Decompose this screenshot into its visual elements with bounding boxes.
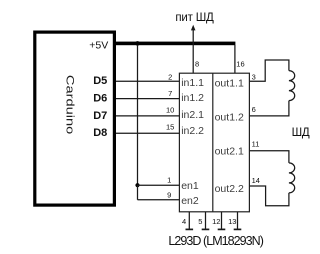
wire D8 to in2.2 [116,132,179,134]
svg-text:1: 1 [167,176,171,185]
svg-text:4: 4 [182,217,186,226]
svg-text:3: 3 [252,72,256,81]
svg-text:13: 13 [228,217,236,226]
svg-text:6: 6 [252,105,256,114]
svg-text:2: 2 [168,73,172,82]
svg-text:7: 7 [168,89,172,98]
wire pin12 ground stub [218,212,226,230]
svg-text:10: 10 [166,106,174,115]
wire L1 bottom to pin6 [249,101,289,116]
svg-text:out1.1: out1.1 [215,78,244,90]
wire pin3 stub to L1 top [249,60,289,81]
svg-text:out2.2: out2.2 [215,183,244,195]
wire pin13 ground stub [234,212,242,230]
svg-text:12: 12 [212,217,220,226]
arrow to пит ШД power feed [191,25,196,31]
Arduino U1 body [35,32,115,205]
svg-text:ШД: ШД [292,127,310,139]
svg-text:8: 8 [195,59,199,68]
wire pin11 stub to L2 top [249,151,289,163]
wire en2 horizontal [138,199,180,201]
svg-text:D7: D7 [93,110,107,122]
svg-text:пит ШД: пит ШД [175,12,214,24]
inductor L2 motor winding B [289,163,295,193]
svg-text:11: 11 [252,140,260,149]
svg-text:15: 15 [166,122,174,131]
svg-text:in1.1: in1.1 [181,77,204,89]
svg-text:out1.2: out1.2 [215,112,244,124]
wire D5 to in1.1 [116,80,179,82]
svg-text:D6: D6 [93,92,107,104]
svg-text:+5V: +5V [89,39,108,51]
svg-text:L293D (LM18293N): L293D (LM18293N) [168,234,263,248]
wire en branch down [137,185,139,200]
svg-text:D5: D5 [93,75,107,87]
svg-text:16: 16 [236,59,244,68]
svg-text:Carduino: Carduino [63,75,75,134]
wire L2 bottom to pin14 [249,186,289,206]
wire D7 to in2.1 [116,115,179,117]
wire +5V down to en1 [137,45,139,185]
svg-text:in2.2: in2.2 [181,125,204,137]
wire arrow stem and pin 8 vertical [192,30,194,74]
svg-text:9: 9 [167,190,171,199]
svg-text:en1: en1 [181,180,199,192]
IC U2 L293D body [179,73,249,212]
wire pin4 ground stub [186,212,194,230]
svg-text:out2.1: out2.1 [215,146,244,158]
svg-text:in1.2: in1.2 [181,92,204,104]
svg-text:D8: D8 [93,127,107,139]
wire pin5 ground stub [202,212,210,230]
node junction en1 [135,183,139,187]
node junction on +5V bus [135,41,140,46]
svg-text:14: 14 [252,176,260,185]
wire +5V thick bus [114,42,235,46]
wire en1 horizontal [138,184,180,186]
wire pin 16 vertical drop [234,45,236,73]
svg-text:5: 5 [198,217,202,226]
svg-text:in2.1: in2.1 [181,109,204,121]
wire D6 to in1.2 [116,98,179,100]
IC U2 internal divider [212,73,214,212]
svg-text:en2: en2 [181,195,199,207]
inductor L1 motor winding A [289,71,295,101]
